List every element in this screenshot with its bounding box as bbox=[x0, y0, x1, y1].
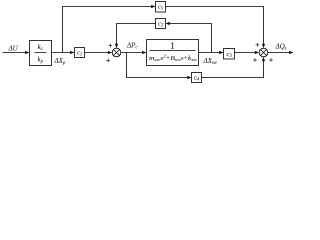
fraction bar in block1 bbox=[35, 52, 47, 54]
block c3 bbox=[224, 49, 235, 60]
svg-text:ΔXp: ΔXp bbox=[54, 57, 66, 66]
fraction bar in big box bbox=[150, 50, 196, 52]
svg-text:ΔXsw: ΔXsw bbox=[203, 57, 218, 66]
arrowhead into c3 bbox=[219, 51, 223, 54]
wire: c5 to junction2 top bbox=[166, 7, 264, 45]
summing junction 2 bbox=[259, 48, 268, 57]
svg-text:ΔPc: ΔPc bbox=[126, 42, 138, 51]
svg-text:ΔU: ΔU bbox=[8, 45, 19, 53]
arrowhead into c5 bbox=[151, 5, 155, 8]
wire: input ΔU to block kq/kp bbox=[3, 52, 27, 54]
wire: tap up to c2 bbox=[170, 24, 212, 53]
plus sign junction2 top-left bbox=[256, 44, 260, 46]
wire: big box to c3 bbox=[199, 52, 221, 54]
arrowhead into junction2 top bbox=[262, 44, 265, 48]
wire: block1 to c1 bbox=[52, 52, 72, 54]
block c4 bbox=[192, 73, 202, 83]
arrowhead into c4 bbox=[187, 76, 191, 79]
wire: c4 to junction2 bottom bbox=[202, 61, 264, 78]
plus sign junction2 bottom-right bbox=[269, 59, 273, 61]
wire: output ΔQs bbox=[268, 52, 291, 54]
arrowhead into c1 bbox=[70, 51, 74, 54]
svg-text:ΔQs: ΔQs bbox=[275, 43, 287, 52]
wire: tap up to c5 path bbox=[63, 7, 153, 53]
arrowhead into big box bbox=[142, 51, 146, 54]
plus sign junction1 top-left bbox=[109, 45, 113, 47]
big box: 1/(m s^2 + B s + k) bbox=[147, 40, 199, 66]
arrowhead into c2 (pointing left) bbox=[166, 22, 170, 25]
arrowhead into junction2 bottom bbox=[262, 57, 265, 61]
wire: c3 to junction2 bbox=[235, 52, 256, 54]
arrowhead into block1 bbox=[25, 51, 29, 54]
plus sign junction2 bottom-left bbox=[253, 59, 257, 61]
arrowhead into junction2 left bbox=[255, 51, 259, 54]
wire: tap down to c4 bbox=[127, 53, 189, 78]
junction2 cross bbox=[260, 49, 266, 55]
arrowhead into junction1 left bbox=[108, 51, 112, 54]
arrowhead output bbox=[289, 51, 293, 54]
summing junction 1 bbox=[112, 48, 121, 57]
block1: kq/kp box bbox=[30, 41, 52, 66]
wire: junction1 to big box bbox=[121, 52, 143, 54]
block c1 bbox=[75, 48, 85, 58]
block c5 bbox=[156, 2, 166, 13]
arrowhead into junction1 top bbox=[115, 44, 118, 48]
wire: c1 to junction1 bbox=[85, 52, 109, 54]
block c2 bbox=[156, 19, 166, 29]
plus sign junction1 bottom-left bbox=[106, 60, 110, 62]
wire: c2 to junction1 top bbox=[117, 24, 156, 45]
junction1 cross bbox=[113, 49, 119, 55]
svg-text:1: 1 bbox=[170, 42, 175, 52]
